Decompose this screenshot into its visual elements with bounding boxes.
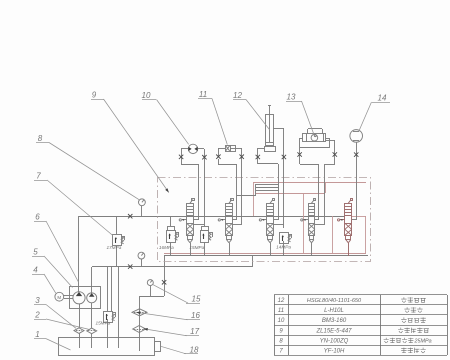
pink stack5 box left side — [332, 216, 334, 254]
shutoff valve motor10 A — [179, 155, 183, 159]
shutoff valve gauge14 — [354, 152, 358, 156]
pump 2 — [87, 293, 97, 303]
relief valve 14MPa — [280, 233, 293, 244]
pink right riser — [365, 216, 367, 254]
svg-text:3: 3 — [35, 296, 40, 305]
directional valve stack 5 — [338, 199, 353, 257]
wire pump suctions — [79, 304, 81, 328]
svg-text:7: 7 — [279, 348, 283, 354]
pink pilot bus top B — [256, 193, 325, 195]
pump unit box (item 5) — [70, 287, 101, 309]
gauge 8 stem — [141, 206, 143, 216]
wire pump1 riser — [78, 216, 80, 292]
leader 16 — [136, 311, 187, 319]
pink pilot drop at 253 — [253, 182, 255, 216]
shutoff valve 11 B — [240, 155, 244, 159]
wire cylinder rod-side port — [258, 148, 264, 150]
wire motor13 right port — [326, 140, 335, 142]
pink pilot bus bottom — [164, 253, 366, 255]
lift cylinder HSGL80 (item 12) — [265, 105, 276, 152]
svg-text:HSGL80/40-1101-650: HSGL80/40-1101-650 — [307, 298, 362, 304]
label 1 — [34, 330, 46, 339]
leader 10 — [157, 100, 189, 145]
pressure gauge (item 15) — [147, 280, 153, 286]
wire work port B of stack 2 — [241, 157, 243, 224]
svg-text:4: 4 — [33, 266, 38, 275]
label 2 — [34, 311, 46, 320]
svg-text:7: 7 — [36, 172, 41, 181]
svg-text:ZL15E-5-447: ZL15E-5-447 — [315, 328, 352, 334]
wire P1 bus from pump 1 to manifold stacks — [79, 216, 345, 218]
wire motor13 bottom loop — [300, 147, 329, 149]
leader 11 — [212, 99, 227, 145]
label 3 — [34, 296, 46, 305]
svg-text:16: 16 — [191, 311, 200, 320]
wire P2 riser into T bus — [252, 256, 254, 267]
label 7 — [34, 172, 47, 181]
wire to relief 14MPa — [283, 224, 285, 228]
leader 1 — [46, 339, 71, 350]
label 8 — [36, 134, 49, 143]
wire motor13 left port — [300, 138, 303, 140]
label 14 — [372, 94, 390, 103]
svg-text:2: 2 — [34, 311, 40, 320]
shutoff valve motor13 A — [297, 152, 301, 156]
wire work port A of stack 3 — [278, 164, 280, 220]
svg-text:M: M — [57, 295, 61, 300]
svg-text:14MPa: 14MPa — [276, 244, 291, 249]
pink pilot drop at 325 — [325, 182, 327, 193]
directional valve stack 3 — [259, 199, 274, 257]
leader 6 — [46, 221, 79, 283]
return filter (item 17) — [133, 326, 146, 333]
leader 2 — [46, 319, 89, 329]
shutoff valve motor10 B — [202, 155, 206, 159]
wire bypass line to tank — [118, 267, 120, 348]
T return bus in manifold — [164, 255, 368, 257]
wire cylinder piston-side port — [273, 128, 284, 130]
relief valve 16MPa — [167, 227, 180, 243]
gauge 15 stem — [150, 286, 152, 296]
pump relief valve 15MPa — [104, 312, 117, 323]
directional valve stack 1 — [179, 199, 194, 257]
svg-text:6: 6 — [35, 213, 40, 222]
wire work port A of stack 2 — [236, 164, 238, 220]
svg-text:25MPa: 25MPa — [414, 338, 432, 344]
hydraulic motor (item 10) — [188, 144, 197, 153]
shutoff valve cyl A — [256, 155, 260, 159]
wire work port A of stack 4 — [318, 164, 320, 220]
shutoff valve cyl B — [282, 155, 286, 159]
svg-text:YN-100ZQ: YN-100ZQ — [320, 338, 349, 344]
suction strainer 1 (item 3) — [74, 328, 84, 334]
pink pilot bus top A — [253, 182, 366, 184]
directional valve stack 2 — [218, 199, 233, 257]
wire valve11 left port — [218, 148, 225, 150]
wire manifold drain to gauge line — [164, 256, 166, 296]
wire work port A of stack 1 — [198, 164, 200, 220]
pilot check block double rectangle — [256, 185, 279, 191]
label 17 — [185, 327, 200, 336]
leader 15 — [153, 285, 188, 304]
wire filter drop line to tank — [139, 296, 141, 351]
svg-text:8: 8 — [279, 338, 283, 344]
wire relief drop lines — [107, 267, 109, 311]
parts list table — [274, 295, 448, 356]
label 12 — [233, 91, 246, 100]
svg-text:14: 14 — [378, 94, 387, 103]
label 13 — [286, 93, 302, 102]
svg-text:18: 18 — [190, 345, 199, 354]
leader 5 — [44, 256, 73, 288]
svg-text:9: 9 — [92, 91, 97, 100]
svg-text:L-H10L: L-H10L — [324, 308, 344, 314]
oil tank (item 1) — [59, 338, 155, 356]
wire link valve to check block — [237, 195, 256, 197]
wire gauge return header — [140, 296, 164, 298]
wire relief 15MPa to tank — [107, 319, 109, 348]
pump 1 — [73, 292, 85, 304]
relief valve 15MPa (manifold) — [201, 227, 213, 243]
svg-text:8: 8 — [38, 134, 43, 143]
label 15 — [186, 295, 201, 304]
leader 3 — [46, 305, 76, 329]
svg-text:5: 5 — [33, 248, 38, 257]
wire P2 line from pump 2 — [92, 266, 252, 268]
wire motor13 drops — [299, 154, 301, 164]
pink pilot drop at 318 — [318, 182, 320, 193]
hydraulic motor BM3-160 (item 13) — [303, 134, 326, 143]
leader 13 — [302, 101, 315, 135]
svg-text:9: 9 — [279, 328, 283, 334]
wire motor10 right port — [198, 148, 204, 150]
suction strainer 2 (item 2) — [87, 328, 97, 334]
leader 18 — [161, 346, 186, 354]
wire pump2 riser — [91, 267, 93, 293]
leader 9 — [104, 99, 169, 193]
shutoff valve 11 A — [216, 155, 220, 159]
pressure gauge on P2 — [138, 252, 145, 259]
label 18 — [184, 345, 199, 354]
label 11 — [198, 90, 212, 99]
pressure gauge YN-100ZQ (item 14) — [350, 130, 363, 143]
wire gauge 14 line into stack 5 — [356, 142, 358, 220]
svg-text:16MPa: 16MPa — [159, 245, 174, 250]
svg-text:BM3-160: BM3-160 — [322, 318, 347, 324]
gauge stem 2 — [141, 259, 143, 267]
label 16 — [186, 311, 200, 320]
svg-text:17: 17 — [190, 327, 199, 336]
wire to relief 15MPa — [204, 224, 206, 226]
wire relief 16MPa risers — [170, 216, 172, 226]
shutoff valve motor13 B — [333, 152, 337, 156]
manifold block dashed outline (item 9) — [158, 178, 371, 262]
svg-text:15: 15 — [192, 295, 201, 304]
svg-text:1: 1 — [35, 330, 39, 339]
wire valve11 right port — [235, 148, 242, 150]
label 9 — [91, 91, 104, 100]
svg-text:11: 11 — [278, 308, 284, 314]
label 10 — [142, 91, 156, 100]
label 6 — [34, 213, 46, 222]
leader 14 — [359, 102, 372, 131]
svg-text:10: 10 — [278, 318, 285, 324]
shutoff valve on P1 line — [128, 214, 132, 218]
svg-text:15MPa: 15MPa — [189, 245, 204, 250]
tank level gauge (item 18) — [155, 342, 161, 352]
wire work port B of stack 1 — [204, 157, 206, 224]
wire motor13 top loop — [307, 129, 309, 134]
shutoff valve on P2 line — [128, 264, 132, 268]
shutoff valve at manifold drain — [162, 280, 166, 284]
svg-text:17MPa: 17MPa — [106, 245, 121, 250]
svg-text:11: 11 — [199, 90, 207, 99]
svg-text:15MPa: 15MPa — [95, 321, 110, 326]
leader 8 — [49, 143, 140, 201]
pressure gauge (item 8) — [139, 199, 146, 206]
leader 12 — [246, 100, 270, 131]
wire work port B of stack 4 — [324, 164, 326, 224]
pink pilot drop at 303 — [303, 193, 305, 254]
pink stack5 port line — [352, 216, 366, 218]
label 4 — [32, 266, 44, 275]
hand valve L-H10L (item 11) — [226, 145, 236, 152]
directional valve stack 4 — [301, 199, 316, 257]
relief valve 17MPa — [113, 235, 126, 246]
wire motor10 left port — [181, 148, 188, 150]
svg-text:13: 13 — [287, 93, 296, 102]
leader 17 — [144, 328, 187, 336]
svg-text:10: 10 — [142, 91, 151, 100]
svg-text:12: 12 — [233, 91, 242, 100]
label 5 — [32, 248, 44, 257]
wire work port B of stack 3 — [283, 157, 285, 224]
leader 4 — [44, 274, 56, 293]
svg-text:YF-10H: YF-10H — [324, 348, 345, 354]
motor-pump shaft — [64, 296, 73, 299]
leader 7 — [47, 180, 113, 236]
svg-text:12: 12 — [278, 298, 285, 304]
electric motor M (item 4) — [55, 292, 64, 301]
relief 17MPa risers — [116, 216, 118, 234]
return check/filter (item 16) — [132, 309, 147, 316]
